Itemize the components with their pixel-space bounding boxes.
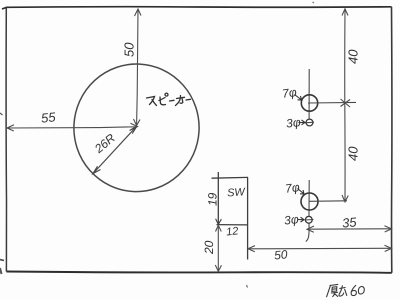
arrowhead left to centerline (307, 226, 314, 232)
arrowhead up top border (342, 9, 348, 16)
speck on top border (313, 2, 315, 3)
hole group 1 centerline (308, 69, 310, 119)
border right line (391, 7, 393, 273)
arrowhead right at circle center (131, 123, 138, 129)
arrowhead down at second hole line (342, 195, 348, 202)
arrowhead down at bottom border (215, 265, 221, 271)
arrowhead right to border (385, 226, 392, 232)
radius line 26R (94, 128, 136, 173)
arrow to small hole1 (299, 120, 306, 125)
SW box left edge / 19 dim (217, 172, 219, 224)
speck below bottom border (247, 285, 248, 288)
border top line (2, 7, 392, 9)
SW box top edge (212, 176, 249, 179)
hole 2 small circle 3phi (305, 216, 312, 223)
scan artifact left edge upper (0, 113, 3, 115)
hole 1 horizontal leader to 40-line (308, 101, 356, 104)
arrowhead left at border (7, 125, 14, 131)
right dimension line 40/40 vertical (344, 9, 346, 202)
arrowhead down at circle center (134, 119, 141, 126)
border bottom line (6, 272, 391, 273)
arrowhead up at top border (135, 9, 142, 16)
arrowhead right at border (385, 245, 392, 251)
hole group 2 centerline (306, 180, 309, 242)
svg-text:50: 50 (273, 247, 288, 262)
SW box bottom edge / 12 dim (217, 224, 249, 226)
SW box right edge extended (247, 177, 249, 259)
dimension line 55 horizontal (8, 127, 137, 128)
svg-text:35: 35 (341, 214, 357, 230)
arrow to small hole2 (298, 217, 305, 222)
scan artifact bottom-left corner (0, 268, 2, 274)
cross tick at 40/40 split (341, 99, 351, 107)
arrowhead left at SW box extension (248, 246, 255, 252)
hole 1 small circle 3phi (306, 119, 313, 126)
arrowhead at circle edge (93, 166, 101, 173)
arrow to hole2 (298, 189, 305, 195)
arrowhead at center end of radius (130, 126, 137, 133)
svg-text:7φ: 7φ (284, 180, 300, 196)
svg-text:50: 50 (122, 42, 137, 57)
dimension line 50 vertical (137, 10, 138, 125)
hole 1 big circle 7phi (301, 95, 317, 111)
dimension line 20 vertical (217, 226, 219, 271)
arrowhead up (216, 225, 222, 231)
svg-text:20: 20 (202, 240, 216, 255)
svg-text:7φ: 7φ (281, 85, 297, 101)
svg-text:40: 40 (346, 49, 361, 64)
speaker katakana text (147, 93, 191, 105)
atsumi 60 handwritten note (327, 284, 365, 296)
svg-text:40: 40 (346, 146, 361, 161)
svg-text:19: 19 (206, 192, 220, 206)
hole 2 big circle 7phi (301, 193, 318, 210)
hole 2 horizontal leader (309, 200, 347, 203)
scan artifact left edge lower dash (0, 260, 4, 261)
border left line (5, 7, 7, 271)
svg-text:55: 55 (40, 109, 57, 126)
dimension line 35 (308, 228, 392, 230)
dimension line 50 bottom (249, 247, 392, 250)
arrow to hole1 (295, 95, 302, 101)
svg-text:12: 12 (226, 225, 239, 238)
svg-text:3φ: 3φ (283, 212, 299, 227)
hole 2 small circle slot (305, 219, 314, 222)
svg-text:SW: SW (227, 186, 247, 199)
hole 1 small circle slot (305, 121, 314, 124)
speaker circle (71, 61, 203, 195)
arrow at box bottom-left corner (19 dim down) (216, 219, 222, 225)
